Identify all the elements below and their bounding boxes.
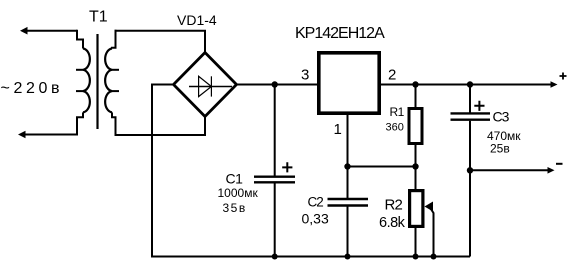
wire secondary top to bridge — [115, 31, 206, 53]
wire secondary bottom lead — [112, 112, 116, 135]
junction node C1 top — [272, 81, 278, 87]
wire AC input bottom — [24, 134, 78, 136]
wire primary top lead — [77, 30, 83, 49]
svg-text:KP142EH12A: KP142EH12A — [295, 25, 385, 42]
bridge diode triangle — [199, 76, 212, 96]
capacitor C3 top plate — [451, 112, 491, 114]
transformer T1 primary winding — [83, 49, 90, 113]
wire AC input top — [26, 30, 77, 32]
bottom rail — [151, 256, 470, 258]
wire C3 upper lead — [469, 85, 471, 114]
wire R1 lower lead — [415, 145, 417, 167]
svg-text:1000мк: 1000мк — [218, 186, 259, 200]
transformer core — [96, 34, 98, 129]
wire secondary bottom to bridge — [115, 115, 206, 135]
label plus output — [560, 73, 567, 80]
primary winding tick 1 — [76, 69, 83, 71]
junction node pin1/C2 — [344, 163, 350, 169]
svg-text:1: 1 — [334, 121, 342, 138]
junction C2 bottom rail — [345, 254, 351, 260]
wire R2 upper lead — [415, 167, 417, 191]
wire primary bottom lead — [77, 112, 83, 134]
wire minus output — [470, 169, 548, 171]
capacitor C1 bottom plate — [254, 181, 295, 183]
wire C1 upper lead — [274, 85, 276, 177]
svg-text:R2: R2 — [385, 197, 403, 214]
svg-text:35в: 35в — [223, 201, 247, 215]
wire pin1 node to R1R2 node — [348, 166, 416, 168]
svg-text:~220в: ~220в — [1, 80, 64, 97]
resistor R2 body — [410, 191, 423, 227]
capacitor C2 bottom plate — [328, 204, 369, 206]
wire C3 lower lead — [469, 121, 471, 257]
transformer T1 secondary winding — [105, 49, 112, 113]
arrow output minus — [548, 167, 555, 174]
junction node R1R2 — [412, 163, 418, 169]
regulator U1 KP142EH12A box — [319, 53, 379, 113]
plus sign C1 — [282, 162, 292, 172]
wire bridge negative to bottom rail — [152, 85, 174, 257]
resistor R1 body — [409, 109, 422, 144]
wire regulator pin 2 output — [381, 84, 551, 86]
wire bridge output to regulator pin 3 — [236, 84, 317, 86]
bridge diode line — [189, 86, 232, 88]
diode bridge VD1-4 — [174, 53, 237, 117]
svg-text:3: 3 — [301, 67, 309, 84]
wire secondary top lead — [112, 30, 116, 49]
wire R2 lower lead — [415, 227, 417, 257]
bridge diode cathode bar — [210, 76, 212, 96]
svg-text:T1: T1 — [89, 9, 108, 26]
junction node C3 top — [467, 81, 473, 87]
wire C1 lower lead — [274, 184, 276, 257]
plus sign C3 — [474, 101, 484, 111]
junction R2 bottom rail — [413, 254, 419, 260]
secondary winding tick 2 — [112, 90, 119, 92]
junction node minus output — [467, 167, 473, 173]
svg-text:C1: C1 — [226, 171, 244, 187]
svg-text:0,33: 0,33 — [302, 211, 329, 227]
capacitor C2 top plate — [328, 198, 369, 200]
wire regulator pin 1 lead — [347, 115, 349, 198]
svg-text:R1: R1 — [390, 105, 405, 119]
arrow input top — [20, 27, 28, 35]
arrow output plus — [551, 81, 558, 88]
svg-text:C2: C2 — [308, 194, 324, 209]
capacitor C1 top plate — [254, 175, 295, 177]
arrow input bottom — [18, 131, 26, 139]
capacitor C3 bottom plate — [451, 118, 491, 120]
label minus output — [556, 163, 563, 165]
junction C1 bottom rail — [272, 254, 278, 260]
primary winding tick 2 — [76, 90, 83, 92]
wire R2 wiper lead — [430, 208, 434, 257]
svg-text:VD1-4: VD1-4 — [177, 12, 217, 28]
wire R1 upper lead — [415, 85, 417, 109]
svg-text:25в: 25в — [490, 142, 510, 156]
potentiometer R2 wiper arrow — [425, 202, 434, 212]
secondary winding tick 1 — [112, 69, 119, 71]
junction node R1 top — [412, 81, 418, 87]
junction wiper bottom rail — [431, 254, 437, 260]
svg-text:2: 2 — [388, 67, 396, 84]
svg-text:6.8k: 6.8k — [379, 215, 406, 231]
svg-text:C3: C3 — [493, 109, 510, 125]
wire C2 lower lead — [347, 207, 349, 257]
svg-text:360: 360 — [386, 122, 404, 134]
